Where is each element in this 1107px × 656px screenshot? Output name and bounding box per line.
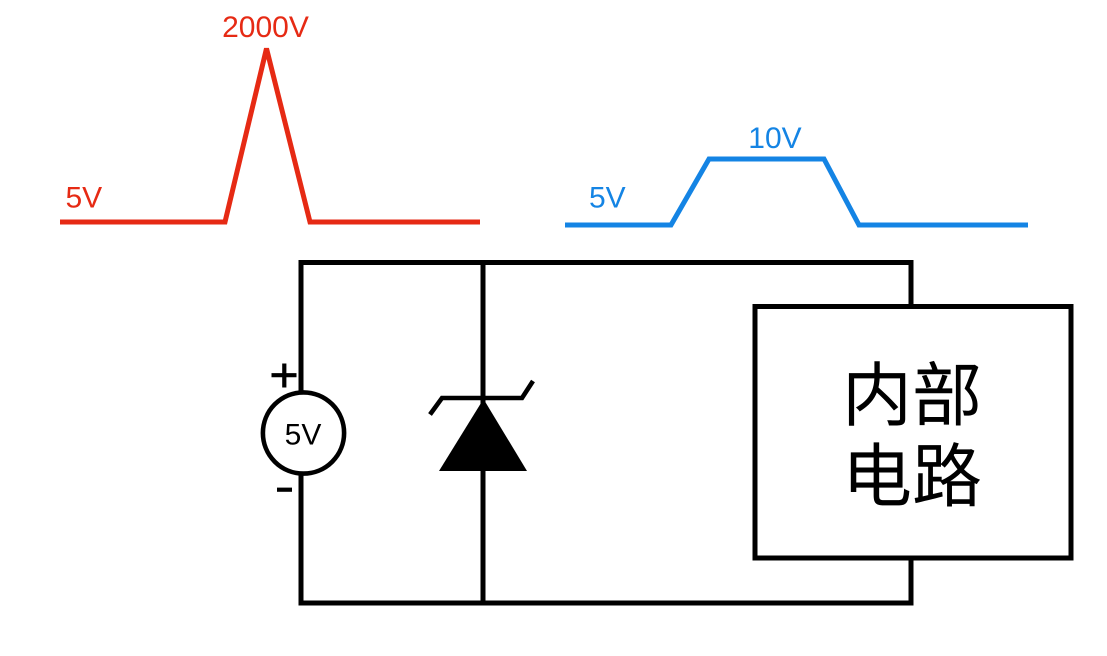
svg-text:5V: 5V [589, 182, 626, 215]
svg-text:10V: 10V [748, 122, 801, 155]
svg-text:2000V: 2000V [222, 11, 309, 44]
svg-text:5V: 5V [66, 182, 103, 215]
svg-text:5V: 5V [285, 419, 322, 452]
